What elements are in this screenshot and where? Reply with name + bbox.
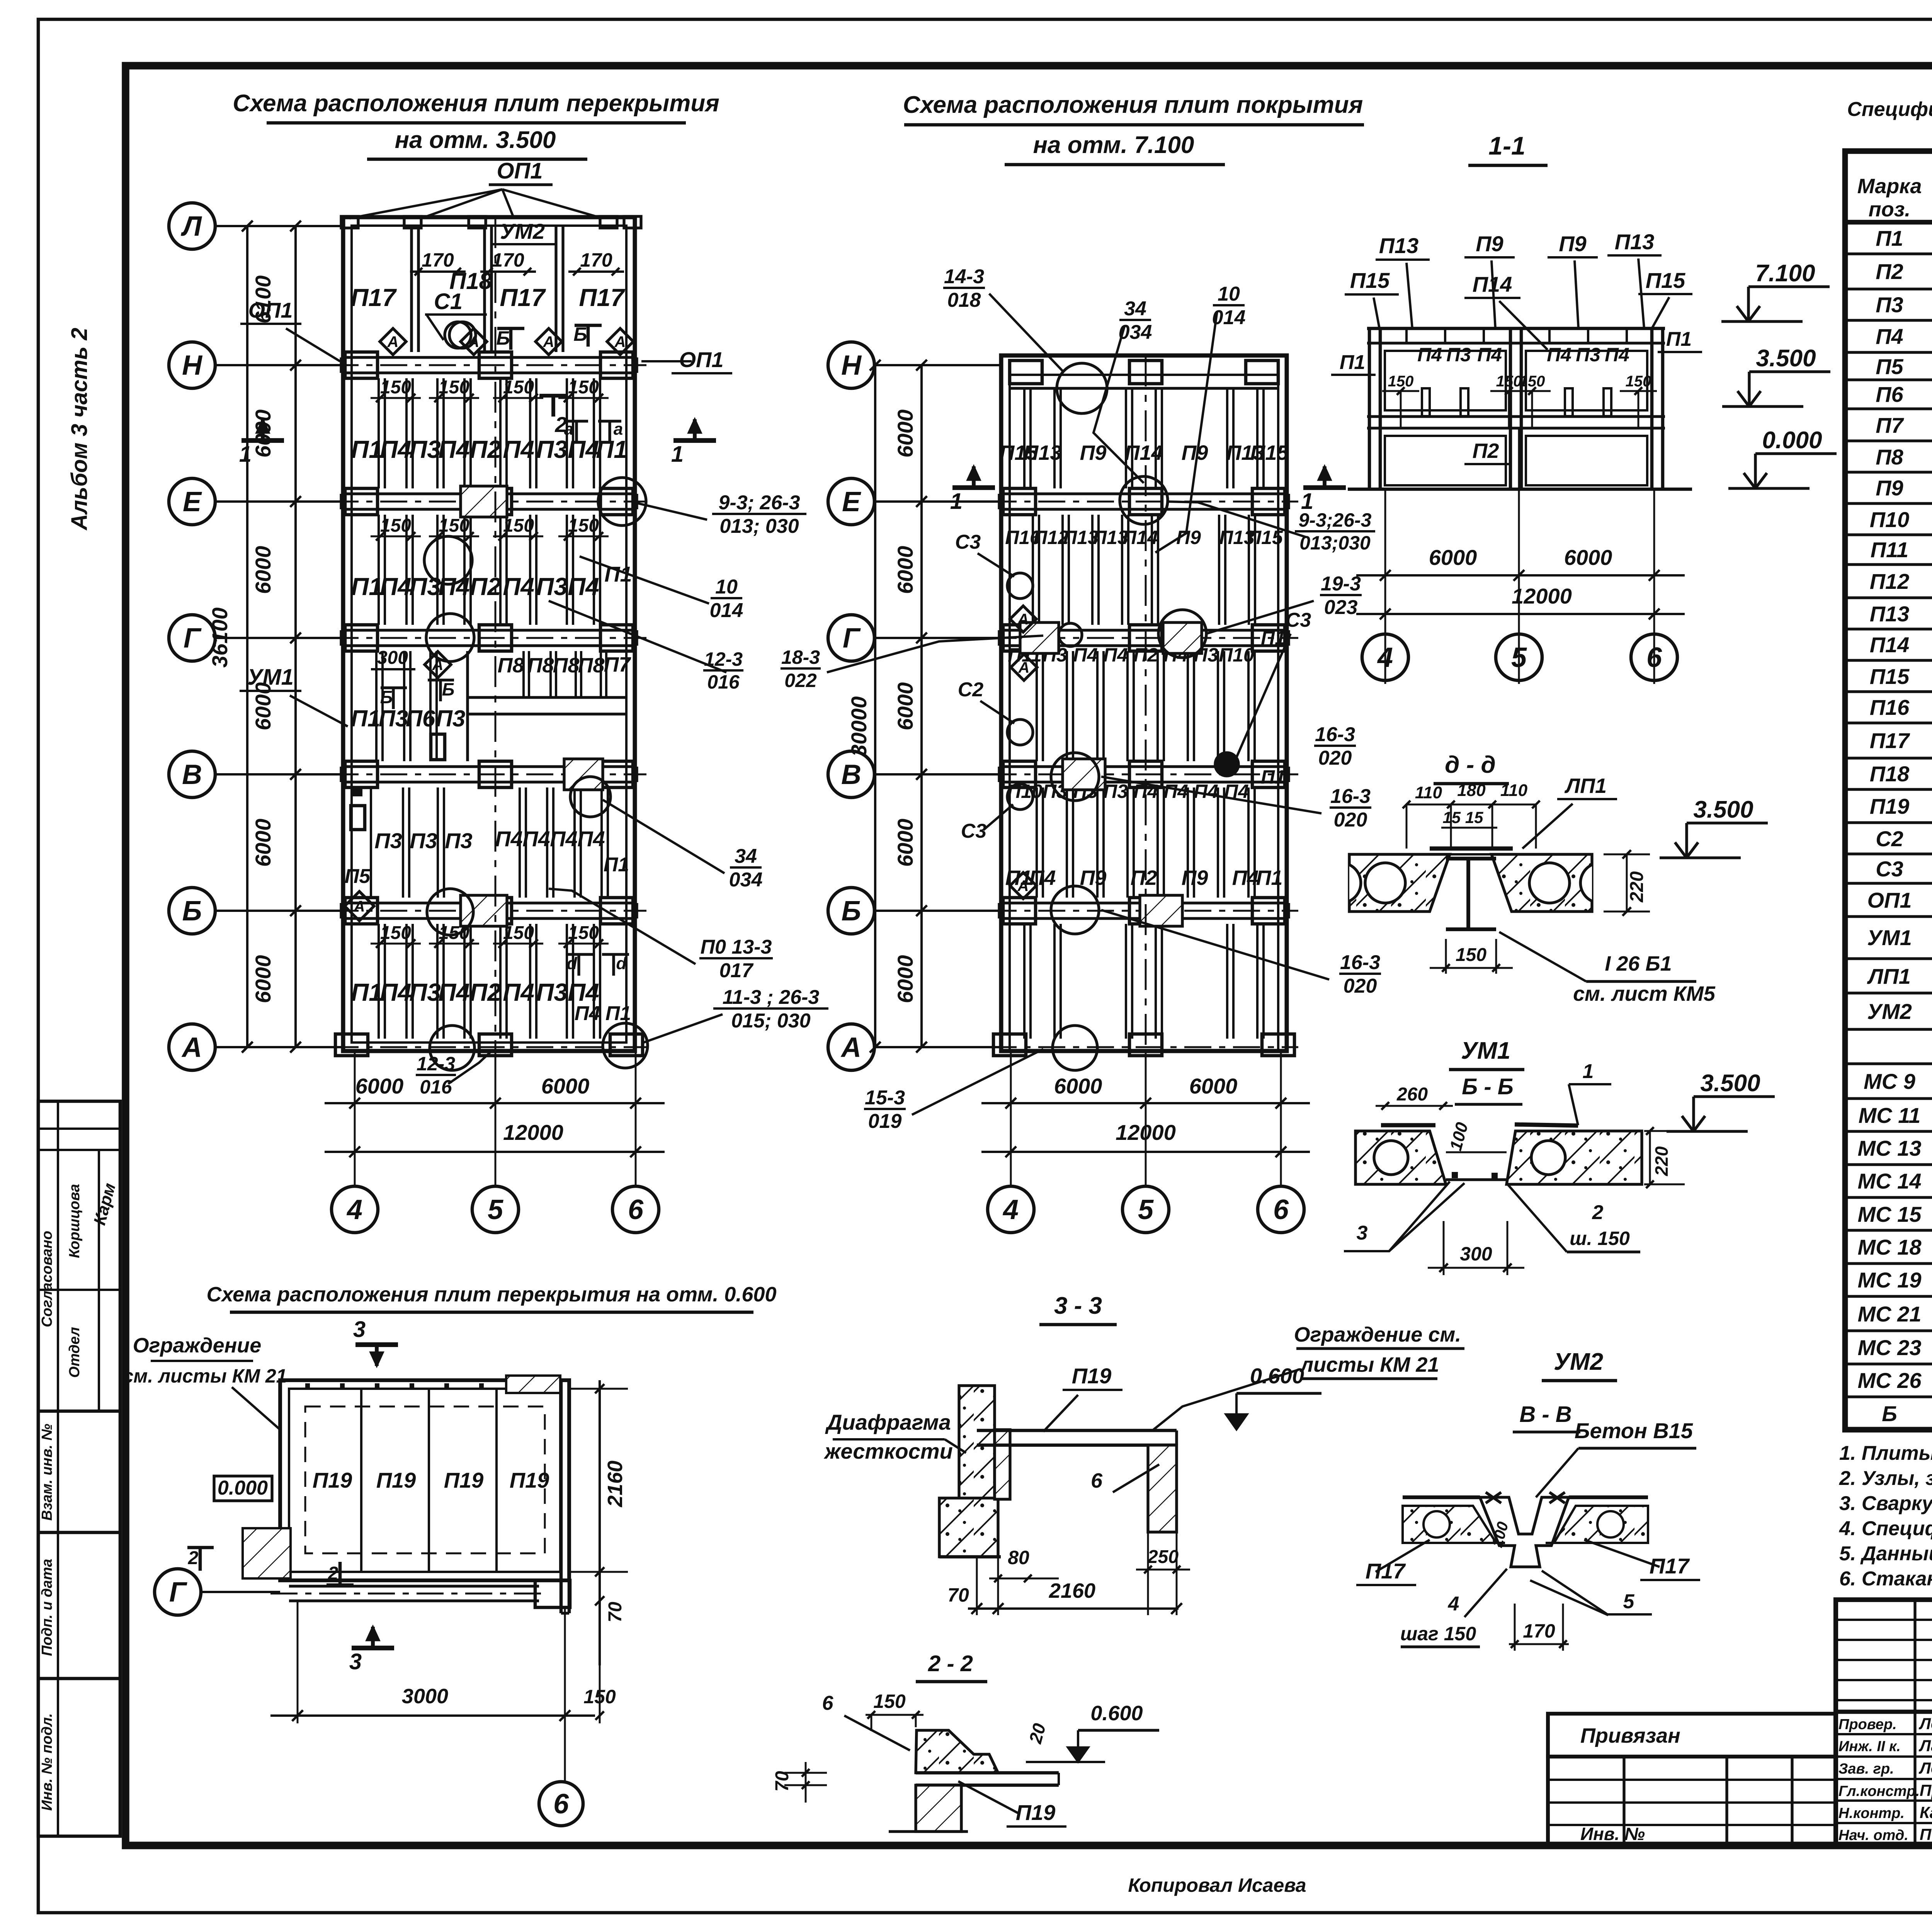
middle plan band V-B strips bbox=[1036, 787, 1038, 898]
svg-text:6000: 6000 bbox=[893, 955, 917, 1003]
svg-text:УМ2: УМ2 bbox=[1554, 1349, 1603, 1375]
svg-text:П4: П4 bbox=[1194, 781, 1218, 802]
middle plan bottom dims bbox=[1010, 1051, 1012, 1185]
svg-text:С1: С1 bbox=[434, 289, 463, 314]
left plan flag 2 and a bbox=[551, 396, 555, 417]
title block left lower grid bbox=[1548, 1757, 1836, 1845]
svg-text:А: А bbox=[1017, 878, 1029, 895]
svg-text:П5: П5 bbox=[1876, 354, 1903, 379]
svg-text:2160: 2160 bbox=[604, 1461, 627, 1507]
svg-text:П1: П1 bbox=[1261, 627, 1286, 649]
svg-text:020: 020 bbox=[1318, 747, 1352, 769]
svg-text:Письман: Письман bbox=[1920, 1825, 1932, 1844]
svg-text:Ограждение: Ограждение bbox=[133, 1334, 262, 1357]
svg-text:д - д: д - д bbox=[1445, 752, 1496, 778]
svg-text:Б: Б bbox=[182, 896, 202, 927]
svg-text:С2: С2 bbox=[1876, 827, 1903, 851]
svg-text:Пронин: Пронин bbox=[1920, 1781, 1932, 1799]
svg-text:Л: Л bbox=[180, 211, 202, 242]
svg-text:П3: П3 bbox=[410, 828, 437, 853]
svg-text:1. Плиты укладывать на свеж: 1. Плиты укладывать на свежеуложенный ра… bbox=[1839, 1442, 1932, 1464]
svg-text:Г: Г bbox=[184, 623, 202, 654]
svg-text:Б: Б bbox=[496, 327, 510, 349]
svg-text:4. Спецификацию к УМ 1 ; У: 4. Спецификацию к УМ 1 ; УМ 2 см. на лис… bbox=[1839, 1517, 1932, 1540]
svg-text:ОП1: ОП1 bbox=[497, 158, 543, 184]
svg-text:П3: П3 bbox=[445, 828, 472, 853]
svg-text:7.100: 7.100 bbox=[1755, 260, 1815, 287]
svg-text:150: 150 bbox=[1519, 373, 1545, 390]
svg-text:МС 21: МС 21 bbox=[1858, 1302, 1922, 1326]
svg-text:16-3: 16-3 bbox=[1315, 723, 1355, 746]
left plan center axis dash line bbox=[495, 217, 497, 1051]
left plan bottom axis circles bbox=[332, 1186, 378, 1233]
middle plan band E-G strips bbox=[1032, 515, 1034, 625]
svg-text:3 - 3: 3 - 3 bbox=[1054, 1293, 1102, 1319]
svg-text:9-3; 26-3: 9-3; 26-3 bbox=[719, 492, 800, 514]
section d-d top dims bbox=[1406, 804, 1536, 806]
svg-text:150: 150 bbox=[1456, 945, 1486, 965]
svg-text:П3: П3 bbox=[536, 978, 568, 1006]
svg-text:П2: П2 bbox=[1131, 866, 1157, 889]
svg-text:Н: Н bbox=[841, 350, 862, 381]
middle plan band G-V strips bbox=[1036, 651, 1038, 761]
svg-text:2 - 2: 2 - 2 bbox=[928, 1651, 973, 1676]
left plan bottom axis band bbox=[332, 1046, 646, 1048]
svg-text:Инв. № подл.: Инв. № подл. bbox=[39, 1713, 55, 1811]
svg-text:П8: П8 bbox=[527, 654, 554, 677]
svg-text:П19: П19 bbox=[1072, 1364, 1112, 1388]
svg-text:6000: 6000 bbox=[1564, 545, 1612, 570]
svg-text:см. лист КМ5: см. лист КМ5 bbox=[1573, 982, 1716, 1005]
svg-text:П15: П15 bbox=[1247, 527, 1283, 548]
svg-text:П17: П17 bbox=[1366, 1559, 1406, 1583]
svg-text:П3: П3 bbox=[409, 978, 441, 1006]
plan 0.600 hatched block right top bbox=[506, 1376, 560, 1393]
svg-text:016: 016 bbox=[707, 671, 740, 693]
section 1-1 room openings lower bbox=[1385, 436, 1506, 485]
svg-text:15-3: 15-3 bbox=[865, 1087, 905, 1109]
svg-text:УМ1: УМ1 bbox=[1461, 1037, 1510, 1064]
svg-text:Е: Е bbox=[842, 486, 861, 517]
left plan bottom dims bbox=[354, 1051, 356, 1185]
svg-text:6000: 6000 bbox=[893, 682, 917, 731]
UM2 X marks bbox=[1486, 1492, 1501, 1503]
svg-text:Подп. и дата: Подп. и дата bbox=[39, 1559, 55, 1656]
svg-text:022: 022 bbox=[784, 670, 817, 691]
svg-text:Согласовано: Согласовано bbox=[39, 1231, 55, 1327]
section 1-1 axis circles bbox=[1362, 634, 1408, 680]
svg-text:Зав. гр.: Зав. гр. bbox=[1838, 1761, 1894, 1777]
svg-text:П19: П19 bbox=[510, 1468, 549, 1492]
left plan vertical dimension lines bbox=[294, 226, 297, 1047]
svg-text:П13: П13 bbox=[1615, 230, 1655, 254]
svg-text:4: 4 bbox=[1002, 1194, 1019, 1225]
svg-text:А: А bbox=[614, 333, 626, 350]
svg-text:Инж. II к.: Инж. II к. bbox=[1838, 1738, 1901, 1755]
section 2-2 drawing bbox=[916, 1730, 998, 1773]
section 1-1 ground line bbox=[1348, 488, 1692, 491]
svg-text:6000: 6000 bbox=[893, 819, 917, 867]
svg-text:П8: П8 bbox=[498, 654, 524, 677]
svg-text:П15: П15 bbox=[1870, 664, 1910, 689]
svg-text:П19: П19 bbox=[376, 1468, 416, 1492]
section d-d top plate LP1 bbox=[1430, 847, 1513, 851]
svg-text:4: 4 bbox=[1377, 642, 1393, 673]
svg-text:П4: П4 bbox=[1605, 344, 1629, 366]
plan 0.600 bottom dim 3000 bbox=[297, 1601, 299, 1723]
middle plan vertical dim line bbox=[920, 365, 923, 1047]
svg-text:П3: П3 bbox=[536, 573, 568, 600]
left plan section flags 1-1 bbox=[241, 438, 284, 443]
svg-text:11-3 ; 26-3: 11-3 ; 26-3 bbox=[723, 986, 820, 1009]
svg-text:П11: П11 bbox=[1871, 537, 1908, 562]
svg-text:34: 34 bbox=[1124, 298, 1146, 320]
svg-text:МС 9: МС 9 bbox=[1864, 1069, 1915, 1094]
svg-text:ОП1: ОП1 bbox=[1867, 888, 1912, 912]
svg-text:250: 250 bbox=[1147, 1547, 1179, 1567]
svg-text:30000: 30000 bbox=[847, 696, 871, 757]
svg-text:0.600: 0.600 bbox=[1090, 1702, 1143, 1725]
svg-text:листы КМ 21: листы КМ 21 bbox=[1299, 1353, 1439, 1376]
svg-text:9-3;26-3: 9-3;26-3 bbox=[1299, 509, 1372, 531]
svg-text:см. листы КМ 21: см. листы КМ 21 bbox=[123, 1365, 287, 1387]
svg-text:П4: П4 bbox=[575, 1002, 600, 1025]
svg-text:0.000: 0.000 bbox=[218, 1477, 268, 1499]
svg-text:19-3: 19-3 bbox=[1321, 573, 1361, 595]
svg-text:150: 150 bbox=[873, 1690, 906, 1712]
svg-text:2. Узлы, замаркированные на: 2. Узлы, замаркированные на листе, см. с… bbox=[1839, 1467, 1932, 1490]
svg-text:П9: П9 bbox=[1080, 441, 1107, 464]
svg-text:МС 26: МС 26 bbox=[1858, 1368, 1922, 1393]
svg-text:П4: П4 bbox=[380, 573, 412, 600]
svg-text:Коршцова: Коршцова bbox=[66, 1184, 83, 1258]
svg-text:П4: П4 bbox=[1876, 324, 1903, 349]
svg-text:П19: П19 bbox=[1870, 794, 1910, 818]
svg-text:Б: Б bbox=[380, 687, 393, 707]
svg-text:П1: П1 bbox=[596, 435, 628, 463]
svg-text:П3: П3 bbox=[379, 706, 408, 731]
svg-text:П4: П4 bbox=[1232, 866, 1259, 889]
svg-text:10: 10 bbox=[1218, 283, 1240, 305]
svg-text:015; 030: 015; 030 bbox=[731, 1010, 810, 1032]
svg-text:300: 300 bbox=[1460, 1243, 1492, 1265]
svg-text:16-3: 16-3 bbox=[1340, 951, 1380, 974]
svg-text:Левина: Левина bbox=[1918, 1714, 1932, 1733]
svg-text:Лазарева: Лазарева bbox=[1918, 1736, 1932, 1755]
svg-text:6: 6 bbox=[553, 1789, 569, 1820]
svg-text:34: 34 bbox=[735, 845, 757, 867]
middle plan top beam bbox=[1010, 387, 1278, 389]
svg-text:013; 030: 013; 030 bbox=[719, 515, 799, 537]
svg-text:П1: П1 bbox=[1340, 351, 1365, 374]
svg-text:Левина: Левина bbox=[1918, 1759, 1932, 1777]
svg-text:12000: 12000 bbox=[1512, 584, 1572, 608]
svg-text:Г: Г bbox=[169, 1577, 187, 1608]
svg-text:2: 2 bbox=[188, 1548, 199, 1568]
svg-text:4: 4 bbox=[1448, 1593, 1459, 1615]
left plan band N-E strips bbox=[378, 378, 380, 488]
svg-text:П4: П4 bbox=[1547, 344, 1571, 366]
svg-text:П19: П19 bbox=[313, 1468, 352, 1492]
svg-text:П9: П9 bbox=[1182, 866, 1208, 889]
svg-text:П4: П4 bbox=[438, 978, 470, 1006]
svg-text:П7: П7 bbox=[604, 653, 632, 676]
svg-text:МС 19: МС 19 bbox=[1858, 1268, 1922, 1292]
svg-text:017: 017 bbox=[719, 959, 754, 982]
svg-text:П1: П1 bbox=[351, 706, 381, 731]
svg-text:Провер.: Провер. bbox=[1838, 1716, 1897, 1733]
svg-text:В: В bbox=[841, 759, 861, 790]
svg-text:5: 5 bbox=[488, 1194, 503, 1225]
section 3-3 wall pier right of column bbox=[995, 1430, 1010, 1499]
svg-text:П17: П17 bbox=[500, 284, 546, 311]
svg-text:П10: П10 bbox=[1870, 507, 1910, 532]
svg-text:ш. 150: ш. 150 bbox=[1570, 1228, 1630, 1249]
svg-text:023: 023 bbox=[1324, 596, 1358, 619]
svg-text:6000: 6000 bbox=[251, 546, 275, 594]
svg-text:3000: 3000 bbox=[402, 1685, 448, 1708]
svg-text:П4: П4 bbox=[568, 573, 599, 600]
UM2 drawing bbox=[1403, 1506, 1496, 1543]
plan 0.600 section flags 3 bbox=[355, 1342, 398, 1347]
svg-text:Ограждение см.: Ограждение см. bbox=[1294, 1323, 1461, 1346]
svg-text:П4: П4 bbox=[495, 827, 522, 851]
svg-text:на отм. 3.500: на отм. 3.500 bbox=[395, 127, 556, 153]
svg-text:018: 018 bbox=[947, 289, 981, 311]
svg-text:020: 020 bbox=[1334, 809, 1367, 831]
svg-text:220: 220 bbox=[1651, 1146, 1672, 1176]
svg-text:5. Данный лист см. совместн: 5. Данный лист см. совместно с листом КЖ… bbox=[1839, 1543, 1932, 1565]
svg-text:4: 4 bbox=[346, 1194, 362, 1225]
svg-text:150: 150 bbox=[1626, 373, 1651, 390]
svg-text:Схема расположения плит перекр: Схема расположения плит перекрытия на от… bbox=[207, 1283, 777, 1306]
svg-text:6: 6 bbox=[822, 1692, 834, 1714]
svg-text:П19: П19 bbox=[1016, 1800, 1056, 1825]
svg-text:шаг 150: шаг 150 bbox=[1400, 1623, 1476, 1645]
section d-d slab bodies bbox=[1349, 854, 1592, 912]
svg-text:С2: С2 bbox=[958, 679, 984, 701]
svg-text:Отдел: Отдел bbox=[66, 1327, 83, 1378]
svg-text:П1: П1 bbox=[1261, 766, 1286, 788]
svg-text:П5: П5 bbox=[345, 865, 371, 888]
svg-text:П2: П2 bbox=[469, 978, 501, 1006]
section 1-1 inner posts upper storey bbox=[1422, 388, 1430, 416]
svg-text:А: А bbox=[1017, 611, 1029, 628]
svg-text:П6: П6 bbox=[406, 706, 435, 731]
svg-text:110: 110 bbox=[1415, 783, 1442, 802]
svg-text:Н.контр.: Н.контр. bbox=[1838, 1805, 1905, 1821]
svg-text:П4: П4 bbox=[1073, 644, 1098, 666]
svg-text:Привязан: Привязан bbox=[1580, 1724, 1680, 1747]
svg-text:П9: П9 bbox=[1476, 231, 1503, 256]
svg-text:300: 300 bbox=[377, 648, 408, 668]
svg-text:ОП1: ОП1 bbox=[679, 347, 724, 372]
middle plan diamond marks bbox=[1010, 606, 1036, 632]
section 1-1 middle floor band bbox=[1367, 415, 1665, 418]
svg-text:П4: П4 bbox=[1029, 866, 1056, 889]
svg-text:на отм. 7.100: на отм. 7.100 bbox=[1033, 132, 1194, 158]
svg-text:Копировал Исаева: Копировал Исаева bbox=[1128, 1874, 1306, 1896]
UM1 section drawing bbox=[1355, 1131, 1446, 1184]
svg-text:П17: П17 bbox=[1870, 728, 1910, 753]
svg-text:Альбом 3 часть 2: Альбом 3 часть 2 bbox=[67, 328, 92, 531]
svg-text:Гл.констр.: Гл.констр. bbox=[1838, 1783, 1920, 1799]
section d-d dim 220 bbox=[1626, 854, 1628, 912]
plan 0.600 dashed inner bbox=[305, 1406, 545, 1553]
svg-text:Диафрагма: Диафрагма bbox=[825, 1410, 951, 1434]
svg-text:020: 020 bbox=[1344, 975, 1377, 997]
svg-text:170: 170 bbox=[492, 249, 524, 271]
svg-text:70: 70 bbox=[605, 1602, 626, 1622]
svg-text:А: А bbox=[840, 1032, 861, 1063]
svg-text:П4: П4 bbox=[380, 978, 412, 1006]
middle plan outer walls bbox=[1001, 355, 1287, 1051]
svg-text:36100: 36100 bbox=[207, 607, 232, 668]
svg-text:ОП1: ОП1 bbox=[248, 298, 293, 322]
svg-text:1: 1 bbox=[950, 489, 963, 514]
svg-text:Б: Б bbox=[842, 896, 861, 927]
svg-text:УМ2: УМ2 bbox=[1867, 999, 1912, 1024]
svg-text:П19: П19 bbox=[444, 1468, 484, 1492]
plan 0.600 hatched stairs left bbox=[243, 1528, 291, 1578]
svg-text:Взам. инв. №: Взам. инв. № bbox=[39, 1424, 55, 1521]
svg-text:жесткости: жесткости bbox=[823, 1439, 953, 1463]
svg-text:П8: П8 bbox=[1876, 445, 1903, 469]
svg-text:6000: 6000 bbox=[251, 819, 275, 867]
section d-d slab voids bbox=[1365, 863, 1405, 903]
plan 0.600 right dim 2160 bbox=[599, 1380, 601, 1665]
svg-text:П2: П2 bbox=[469, 435, 501, 463]
spec table grid bbox=[1845, 151, 1932, 1430]
svg-text:Е: Е bbox=[183, 486, 202, 517]
middle plan center axis dash line bbox=[1145, 355, 1147, 1051]
svg-text:18-3: 18-3 bbox=[781, 646, 820, 668]
svg-text:П12: П12 bbox=[1870, 569, 1910, 594]
svg-text:Б: Б bbox=[442, 679, 455, 699]
svg-text:Схема расположения плит покрыт: Схема расположения плит покрытия bbox=[903, 92, 1363, 118]
svg-text:П2: П2 bbox=[469, 573, 501, 600]
svg-text:6: 6 bbox=[1646, 642, 1662, 673]
svg-text:П4: П4 bbox=[503, 435, 534, 463]
svg-text:П1: П1 bbox=[1666, 328, 1692, 350]
svg-text:6: 6 bbox=[1091, 1469, 1103, 1492]
svg-text:МС 13: МС 13 bbox=[1858, 1136, 1922, 1160]
svg-text:МС 18: МС 18 bbox=[1858, 1235, 1922, 1259]
middle plan axis circles bbox=[828, 342, 874, 388]
svg-text:3: 3 bbox=[1357, 1222, 1368, 1244]
svg-text:УМ1: УМ1 bbox=[247, 665, 294, 690]
section d-d I-beam bbox=[1446, 857, 1496, 861]
svg-text:180: 180 bbox=[1457, 781, 1486, 800]
plan 0.600 right wall bbox=[560, 1380, 563, 1613]
svg-text:А: А bbox=[543, 333, 554, 350]
plan 0.600 label 0.000 bbox=[214, 1476, 272, 1501]
svg-text:ЛП1: ЛП1 bbox=[1867, 964, 1911, 988]
section 1-1 room openings upper bbox=[1385, 351, 1506, 410]
svg-text:6000: 6000 bbox=[251, 955, 275, 1003]
svg-text:П4: П4 bbox=[522, 827, 550, 851]
svg-text:П1: П1 bbox=[1256, 866, 1283, 889]
svg-text:14-3: 14-3 bbox=[944, 265, 984, 288]
section 3-3 right wall bbox=[1148, 1445, 1177, 1532]
svg-text:5: 5 bbox=[1623, 1590, 1635, 1613]
svg-text:П3: П3 bbox=[1446, 344, 1471, 366]
svg-text:3. Сварку производить элект: 3. Сварку производить электродами Э42 ГО… bbox=[1839, 1492, 1932, 1515]
plan 0.600 bottom beam band bbox=[289, 1585, 539, 1587]
svg-text:П7: П7 bbox=[1876, 413, 1904, 437]
middle plan bottom axis circles bbox=[988, 1186, 1034, 1233]
left plan outer walls bbox=[343, 217, 635, 1051]
svg-text:12000: 12000 bbox=[1116, 1120, 1176, 1145]
svg-text:П3: П3 bbox=[409, 573, 441, 600]
left plan axis circles bbox=[169, 203, 215, 249]
svg-text:П3: П3 bbox=[1103, 781, 1128, 802]
svg-text:П18: П18 bbox=[1870, 762, 1910, 786]
left plan beam bands bbox=[341, 356, 637, 359]
svg-text:С3: С3 bbox=[955, 531, 981, 553]
svg-text:Н: Н bbox=[182, 350, 203, 381]
svg-text:П14: П14 bbox=[1870, 633, 1910, 657]
left plan band V-B bbox=[352, 786, 362, 796]
svg-text:П9: П9 bbox=[1559, 231, 1586, 256]
svg-text:П13: П13 bbox=[1379, 233, 1419, 258]
svg-text:Бетон В15: Бетон В15 bbox=[1575, 1418, 1693, 1443]
svg-text:П4: П4 bbox=[1417, 344, 1442, 366]
svg-text:6000: 6000 bbox=[893, 410, 917, 458]
middle plan band B-A strips bbox=[1023, 924, 1026, 1039]
svg-text:П14: П14 bbox=[1122, 527, 1158, 548]
svg-text:ЛП1: ЛП1 bbox=[1564, 774, 1607, 798]
svg-text:6: 6 bbox=[1273, 1194, 1289, 1225]
svg-text:П1: П1 bbox=[351, 435, 383, 463]
svg-text:В: В bbox=[182, 759, 202, 790]
svg-text:70: 70 bbox=[772, 1771, 793, 1792]
svg-text:014: 014 bbox=[710, 599, 743, 622]
svg-text:1: 1 bbox=[671, 442, 684, 467]
svg-text:П14: П14 bbox=[1473, 272, 1512, 296]
left plan top edge OP1 pads bbox=[341, 216, 358, 228]
left plan band E-G strips bbox=[378, 515, 380, 625]
svg-text:5: 5 bbox=[1511, 642, 1527, 673]
svg-text:6. Стакан С 1 учтен на: 6. Стакан С 1 учтен на листе КЖ 56. bbox=[1839, 1568, 1932, 1590]
svg-text:П17: П17 bbox=[579, 284, 626, 311]
svg-text:6: 6 bbox=[628, 1194, 644, 1225]
svg-text:6000: 6000 bbox=[1054, 1074, 1102, 1098]
svg-text:6000: 6000 bbox=[355, 1074, 404, 1098]
svg-text:П1: П1 bbox=[605, 1002, 631, 1025]
svg-text:3.500: 3.500 bbox=[1693, 796, 1753, 823]
left plan top band slabs P17 P18 bbox=[410, 226, 413, 352]
middle plan monolithic patches on beams bbox=[1020, 622, 1059, 653]
section 3-3 slab bbox=[977, 1429, 1177, 1432]
svg-text:П4: П4 bbox=[568, 435, 599, 463]
svg-text:220: 220 bbox=[1627, 871, 1647, 903]
svg-text:П14: П14 bbox=[1125, 441, 1163, 464]
middle plan beam bands bbox=[999, 492, 1289, 495]
svg-text:3: 3 bbox=[353, 1317, 366, 1342]
svg-text:П4: П4 bbox=[438, 435, 470, 463]
svg-text:МС 15: МС 15 bbox=[1858, 1202, 1922, 1226]
svg-text:0.000: 0.000 bbox=[1762, 427, 1822, 454]
svg-text:МС 23: МС 23 bbox=[1858, 1335, 1922, 1360]
title block pvyazan cell bbox=[1548, 1714, 1836, 1757]
svg-text:2: 2 bbox=[328, 1563, 338, 1584]
svg-text:Инв. №: Инв. № bbox=[1580, 1824, 1645, 1844]
svg-text:П1: П1 bbox=[1876, 226, 1903, 250]
plan 0.600 axis G bbox=[155, 1569, 201, 1615]
section 1-1 top slab joints bbox=[1405, 328, 1408, 343]
svg-text:П3: П3 bbox=[374, 828, 402, 853]
